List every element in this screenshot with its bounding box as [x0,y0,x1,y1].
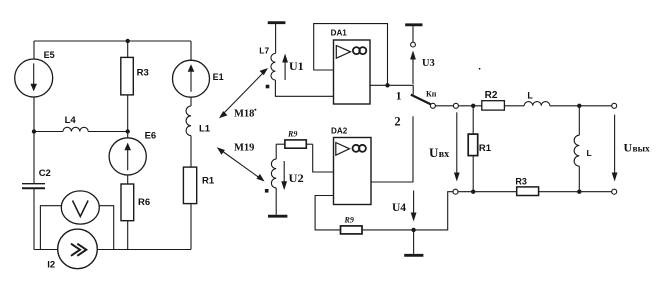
node left mid junction [32,129,36,133]
resistor R3 right [517,187,539,196]
terminal circle output top [612,103,617,108]
wire E1 to L1 [190,97,192,106]
svg-text:E5: E5 [44,50,55,60]
wire switch to input terminal [435,105,453,107]
mutual arrow M19 [217,147,265,181]
svg-text:U4: U4 [392,202,406,214]
wire V right [99,206,113,250]
svg-text:I2: I2 [47,260,55,271]
voltage arrow U4 [411,191,417,222]
source E1 [173,60,210,97]
inductor L2 [271,159,276,188]
resistor R9 top [276,140,313,148]
ground below L2 [268,215,287,218]
voltage arrow U3 [410,51,416,85]
svg-text:R6: R6 [138,197,150,208]
terminal circle U3 [411,42,416,47]
wire E5 to node [33,97,35,132]
svg-text:Uвых: Uвых [624,141,651,155]
switch arm Kp [411,95,431,105]
voltage arrow U2 [281,161,287,190]
svg-text:R1: R1 [479,143,492,154]
svg-text:U3: U3 [422,58,435,69]
node mid junction [126,129,130,133]
inductor L4 [34,127,128,131]
node top junction [126,39,130,43]
svg-text:1: 1 [396,90,402,102]
speck near M18 [254,109,256,111]
resistor R6 [121,184,134,221]
resistor R1 shunt [468,134,478,156]
svg-text:Кп: Кп [426,89,437,98]
node L shunt bottom [577,190,581,194]
coupling dot L7 [266,85,270,89]
mutual arrow M18 [219,68,268,118]
wire bottom rail left [34,249,58,251]
wire node to C2 [33,132,35,184]
svg-text:C2: C2 [39,168,51,179]
node R1 top [471,104,475,108]
wire bottom rail right [97,249,191,251]
speck above R2 [479,68,481,70]
wire R3 top [127,41,129,57]
wire R6 bottom [127,221,129,250]
voltage arrow Uvyx [612,115,618,182]
op-amp DA2 [334,138,372,205]
svg-text:R1: R1 [202,175,215,186]
wire R9 bottom to corner [362,192,453,230]
wire bottom rail to R3 [458,191,517,193]
svg-text:U2: U2 [289,173,304,185]
resistor R9 bottom [341,226,363,234]
switch moving contact circle [430,103,435,108]
ground above switch [405,25,422,42]
wire DA2 output to contact 2 [371,116,413,182]
inductor L horizontal [524,102,550,106]
wire input terminal to R2 [458,105,481,107]
svg-text:E1: E1 [213,72,224,82]
inductor L7 [271,53,275,80]
svg-text:DA2: DA2 [331,126,347,136]
wire L shunt bottom [578,166,580,192]
terminal circle input top [453,103,458,108]
svg-text:L: L [527,90,533,100]
terminal circle input bottom [453,189,458,194]
coupling dot L2 [265,189,269,193]
node U4 junction [411,228,415,232]
wire DA1 feedback loop [314,24,388,86]
wire DA2 lower input loop [315,196,340,230]
svg-text:L7: L7 [259,46,269,56]
node DA1 output junction [385,83,389,87]
wire L to output terminal [550,105,612,107]
svg-text:DA1: DA1 [331,28,347,38]
svg-text:L: L [587,148,592,158]
terminal circle output bottom [612,189,617,194]
wire R1 to bottom rail [190,204,192,250]
source E6 [109,138,146,175]
resistor R1 [183,167,196,204]
svg-text:R3: R3 [515,176,527,186]
node L shunt top [577,104,581,108]
svg-text:E6: E6 [145,131,157,142]
wire top rail left circuit [34,40,191,42]
op-amp DA1 [334,40,371,104]
wire R1 shunt bottom [472,156,474,192]
wire R9 to DA2 input [313,144,334,172]
wire L2 top [275,144,277,159]
svg-text:R9: R9 [344,216,354,225]
svg-text:Uвх: Uвх [429,145,449,160]
wire R1 shunt top [472,106,474,135]
wire L1 to R1 [190,136,192,168]
ground below U4 [404,230,423,255]
inductor L shunt [574,135,579,166]
wire V left [40,206,61,250]
voltage arrow U1 [282,54,288,81]
svg-text:U1: U1 [289,59,304,73]
wire R3 to output terminal bottom [539,191,612,193]
svg-text:R3: R3 [137,67,149,78]
wire L2 bottom [275,188,277,215]
capacitor C2 [22,184,45,189]
source E5 [15,59,53,97]
wire DA1 output [370,85,413,94]
svg-text:M18: M18 [234,109,254,120]
wire C2 to bottom rail [33,188,35,249]
resistor R3 [121,57,134,95]
ground above L7 [268,23,286,54]
node R1 bottom [471,190,475,194]
voltage arrow Uvx [454,112,460,181]
wire L shunt top [578,106,580,135]
wire L7 to DA1 input [275,80,333,96]
resistor R2 [482,101,505,110]
svg-text:M19: M19 [234,143,254,154]
wire R2 to L [504,105,524,107]
wire E6 to R6 [127,175,129,184]
wire E1 branch top [190,41,192,61]
svg-text:R2: R2 [485,90,498,101]
wire E5 branch top [33,41,35,60]
voltmeter V [61,191,99,224]
svg-text:L4: L4 [65,115,77,126]
wire R3 bottom [127,95,129,138]
svg-text:R9: R9 [287,130,297,139]
svg-text:L1: L1 [199,123,211,134]
inductor L1 [186,106,191,136]
source I2 [58,229,98,269]
svg-text:2: 2 [394,115,400,129]
